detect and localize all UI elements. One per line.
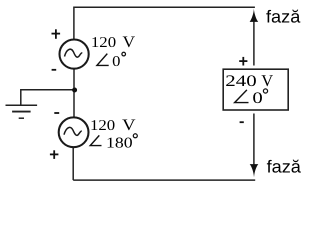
svg-text:120: 120	[90, 118, 115, 134]
svg-text:fază: fază	[266, 7, 301, 27]
svg-text:0: 0	[112, 54, 120, 70]
svg-text:V: V	[122, 117, 136, 134]
svg-text:V: V	[261, 71, 273, 90]
svg-text:V: V	[123, 34, 136, 51]
svg-text:240: 240	[225, 73, 256, 90]
svg-text:120: 120	[91, 35, 116, 51]
svg-text:180: 180	[106, 135, 133, 151]
svg-text:fază: fază	[267, 157, 302, 177]
svg-text:0: 0	[252, 90, 262, 107]
